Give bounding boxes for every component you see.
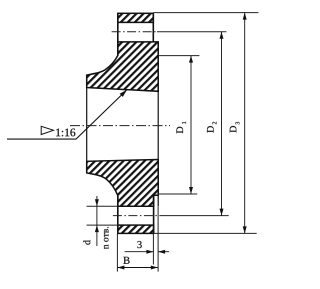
D2 top extension xyxy=(157,31,226,33)
d dimension line xyxy=(96,196,98,246)
D2 bottom extension xyxy=(162,215,229,217)
label n otv xyxy=(104,227,109,249)
front face line lower xyxy=(153,195,155,233)
label D1 xyxy=(176,122,185,134)
D3 bottom extension xyxy=(153,232,256,234)
front face line upper xyxy=(152,13,154,42)
lower bolt hole centerline xyxy=(113,215,162,217)
flange lower main section xyxy=(87,160,159,207)
label 1:16 xyxy=(56,129,75,137)
raised face front line xyxy=(157,42,159,206)
D1 bottom extension xyxy=(158,193,197,195)
D1 top extension xyxy=(158,55,199,57)
dimension 3 left tail xyxy=(125,251,154,253)
taper symbol xyxy=(41,126,53,134)
extension line B right xyxy=(157,206,159,271)
flange upper rim section xyxy=(118,13,154,22)
D3 top extension xyxy=(153,12,258,14)
taper leader xyxy=(7,90,127,139)
label 3 xyxy=(137,241,141,248)
label D3 xyxy=(230,122,240,133)
dimension line D3 xyxy=(244,13,246,234)
back face line lower xyxy=(117,196,119,234)
dimension 3 right tail xyxy=(158,251,169,253)
extension line B left xyxy=(116,233,118,271)
flange lower rim section xyxy=(118,225,154,233)
bore edge at neck end xyxy=(86,75,88,173)
dimension line D1 xyxy=(190,56,192,194)
d dimension upper extension xyxy=(87,205,118,207)
main axis centerline xyxy=(70,125,170,127)
dimension line D2 xyxy=(221,32,223,216)
label D2 xyxy=(207,122,216,133)
back face line upper xyxy=(117,13,119,55)
d dimension lower extension xyxy=(87,224,118,226)
upper bolt hole centerline xyxy=(112,31,157,33)
dimension B line xyxy=(117,267,157,269)
label B xyxy=(123,257,129,264)
flange upper main section xyxy=(87,42,159,91)
label d xyxy=(83,240,90,245)
extension line 3 left xyxy=(152,233,154,264)
